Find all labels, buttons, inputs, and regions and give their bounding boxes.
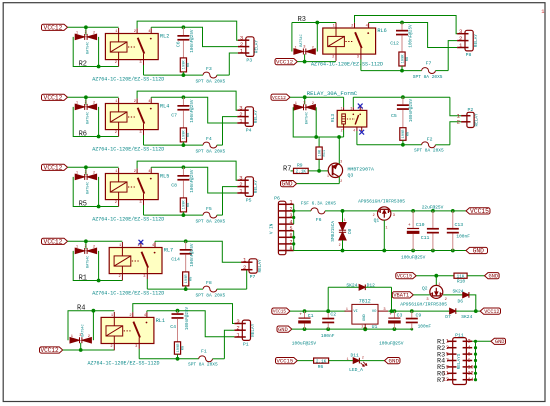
diode value bbox=[87, 182, 91, 194]
svg-text:RL6: RL6 bbox=[377, 28, 386, 34]
svg-text:2: 2 bbox=[88, 335, 90, 339]
svg-text:2: 2 bbox=[339, 243, 341, 247]
relay value AZ764-1C-120E/EZ-SS-112D bbox=[311, 61, 383, 67]
svg-text:C11: C11 bbox=[421, 235, 430, 241]
svg-text:2: 2 bbox=[110, 345, 112, 349]
relay RL4 bbox=[105, 98, 169, 136]
svg-text:+: + bbox=[299, 313, 302, 318]
wire P6 pins 1-4 bbox=[292, 204, 295, 224]
fuse F8 bbox=[147, 270, 246, 299]
wire VCC12 (R3 block) bbox=[297, 54, 336, 63]
svg-text:100nF@25V: 100nF@25V bbox=[190, 29, 195, 53]
svg-text:100nF@25V: 100nF@25V bbox=[409, 98, 414, 122]
svg-text:RL3: RL3 bbox=[330, 114, 336, 123]
svg-text:3: 3 bbox=[135, 345, 137, 349]
svg-text:100nF@25V: 100nF@25V bbox=[190, 169, 195, 193]
net label R7 bbox=[283, 165, 291, 173]
svg-text:F2: F2 bbox=[427, 136, 433, 142]
dual diode (R3 block) bbox=[294, 46, 315, 55]
ground flag GND (power) bbox=[466, 247, 488, 254]
dual diode (R1 block) bbox=[75, 245, 96, 254]
svg-text:2: 2 bbox=[243, 264, 246, 271]
relay value AZ764-1C-120E/EZ-SS-112D bbox=[92, 77, 164, 83]
net label R5 bbox=[79, 200, 87, 208]
svg-text:VCC12: VCC12 bbox=[44, 24, 63, 31]
svg-text:P5: P5 bbox=[246, 197, 252, 203]
svg-text:R9: R9 bbox=[297, 163, 303, 169]
svg-text:AP9561GH/IRFR5305: AP9561GH/IRFR5305 bbox=[400, 302, 447, 308]
relay RL3 bbox=[330, 106, 367, 132]
resistor R9 bbox=[291, 163, 329, 175]
svg-text:P1: P1 bbox=[243, 341, 249, 347]
svg-text:BAT54C: BAT54C bbox=[87, 112, 91, 124]
dual diode (R2 block) bbox=[75, 31, 96, 40]
fuse F5 bbox=[144, 187, 238, 225]
ground flag GND (FormC) bbox=[281, 181, 297, 188]
svg-text:VCC12: VCC12 bbox=[44, 164, 63, 171]
capacitor C14 bbox=[171, 241, 195, 272]
no-connect X bbox=[139, 240, 144, 245]
relay value AZ764-1C-120E/EZ-SS-112D bbox=[92, 291, 164, 297]
svg-text:C6: C6 bbox=[176, 41, 182, 47]
wire VBAT1 to Q2 bbox=[413, 294, 430, 296]
svg-text:7: 7 bbox=[446, 358, 449, 364]
net labels R1-R7 (P11) bbox=[437, 339, 445, 385]
resistor 100R (FormC) bbox=[400, 128, 411, 147]
svg-text:Q2: Q2 bbox=[422, 285, 428, 291]
value 100uF@25V (C1) bbox=[292, 340, 317, 346]
svg-text:P4: P4 bbox=[246, 127, 252, 133]
svg-text:C8: C8 bbox=[171, 183, 177, 189]
svg-text:VCC15: VCC15 bbox=[397, 273, 412, 279]
diode value bbox=[87, 256, 91, 268]
svg-text:MMBT2907A: MMBT2907A bbox=[348, 167, 374, 173]
svg-text:R8: R8 bbox=[187, 63, 191, 67]
value 22uF@25V bbox=[422, 204, 444, 210]
svg-text:2: 2 bbox=[93, 32, 95, 36]
svg-text:SPT 8A 20X5: SPT 8A 20X5 bbox=[196, 218, 226, 224]
capacitor C6 bbox=[176, 27, 196, 58]
svg-text:GND: GND bbox=[495, 339, 505, 345]
svg-text:R7: R7 bbox=[283, 165, 291, 173]
wire coil drive net (FormC) bbox=[293, 107, 343, 139]
svg-text:2: 2 bbox=[361, 326, 363, 330]
resistor 100R bbox=[183, 272, 194, 291]
capacitor C4 bbox=[170, 306, 190, 341]
svg-text:RL2: RL2 bbox=[160, 34, 169, 40]
svg-text:5: 5 bbox=[289, 226, 292, 232]
relay value AZ764-1C-120E/EZ-SS-112D bbox=[92, 147, 164, 153]
resistor R6 2.1K bbox=[314, 358, 329, 370]
svg-text:RL1: RL1 bbox=[156, 318, 165, 324]
svg-text:2: 2 bbox=[332, 56, 334, 60]
svg-text:14: 14 bbox=[468, 377, 474, 383]
svg-text:7812: 7812 bbox=[359, 299, 371, 305]
svg-text:SK24: SK24 bbox=[346, 282, 357, 288]
svg-text:12: 12 bbox=[468, 371, 474, 377]
svg-text:AZ764-1C-120E/EZ-SS-112D: AZ764-1C-120E/EZ-SS-112D bbox=[92, 217, 164, 223]
power flag VCC12 (R1 block) bbox=[42, 238, 68, 245]
diode value bbox=[305, 112, 309, 124]
ground flag GND (P11) bbox=[491, 338, 506, 345]
wire contact to connector pin 3 bbox=[137, 91, 237, 110]
value 100uF@25V (C3) bbox=[379, 340, 404, 346]
svg-text:100R: 100R bbox=[183, 200, 187, 210]
svg-text:100R: 100R bbox=[401, 54, 405, 64]
svg-text:D11: D11 bbox=[351, 352, 360, 358]
svg-text:P7: P7 bbox=[250, 274, 256, 280]
svg-text:BAT54C: BAT54C bbox=[87, 182, 91, 194]
svg-text:VCC12: VCC12 bbox=[272, 95, 286, 101]
svg-text:U1: U1 bbox=[372, 324, 378, 330]
svg-text:1: 1 bbox=[344, 218, 346, 222]
svg-text:C3: C3 bbox=[397, 313, 403, 319]
svg-text:VO: VO bbox=[372, 310, 377, 314]
value 100uF@25V bbox=[401, 254, 426, 260]
svg-text:100uF@25V: 100uF@25V bbox=[379, 340, 404, 346]
capacitor C3 bbox=[388, 311, 402, 329]
svg-text:R8: R8 bbox=[187, 203, 191, 207]
svg-text:BAT54C: BAT54C bbox=[87, 256, 91, 268]
svg-text:8: 8 bbox=[468, 358, 471, 364]
net label R2 bbox=[79, 60, 87, 68]
svg-text:P8: P8 bbox=[466, 52, 472, 58]
fuse F7 bbox=[361, 41, 457, 80]
svg-text:2: 2 bbox=[445, 298, 447, 302]
svg-text:R5: R5 bbox=[79, 200, 87, 208]
svg-text:3: 3 bbox=[85, 101, 87, 105]
svg-text:SMBJ15CA: SMBJ15CA bbox=[331, 221, 336, 242]
capacitor C11 bbox=[421, 211, 439, 251]
svg-text:R1: R1 bbox=[79, 274, 87, 282]
svg-text:100R: 100R bbox=[177, 343, 181, 353]
connector P11 (RELAYS) bbox=[443, 333, 474, 385]
wire P11 even pins to GND bbox=[472, 340, 491, 382]
wire coil pins (FormC) bbox=[343, 97, 345, 137]
svg-text:8: 8 bbox=[289, 246, 292, 252]
svg-text:SPT 8A 20X5: SPT 8A 20X5 bbox=[196, 78, 226, 84]
svg-text:C9: C9 bbox=[416, 313, 422, 319]
svg-text:GND: GND bbox=[473, 248, 485, 255]
power flag VCC12 (reg out) bbox=[480, 308, 500, 315]
svg-text:F6: F6 bbox=[316, 217, 322, 223]
wire VCC12 rail bbox=[68, 25, 119, 34]
wire contact to connector pin 3 bbox=[137, 161, 237, 180]
regulator U1 7812 bbox=[345, 299, 389, 331]
svg-text:F8: F8 bbox=[206, 280, 212, 286]
svg-text:RL4: RL4 bbox=[160, 104, 169, 110]
svg-text:AP9561GH/IRFR5305: AP9561GH/IRFR5305 bbox=[358, 199, 405, 205]
svg-text:4: 4 bbox=[468, 345, 471, 351]
svg-text:2.1K: 2.1K bbox=[296, 170, 307, 175]
svg-text:2: 2 bbox=[373, 214, 375, 218]
svg-text:2: 2 bbox=[340, 179, 342, 183]
power flag VCC12 (R2 block) bbox=[42, 24, 68, 31]
wire contact to connector pin 3 bbox=[137, 21, 238, 40]
svg-text:2: 2 bbox=[115, 201, 117, 205]
svg-text:R8: R8 bbox=[406, 57, 410, 61]
wire net R2 bbox=[73, 37, 118, 69]
diode value bbox=[81, 324, 85, 336]
power flag VCC15 (reg in) bbox=[272, 308, 290, 315]
wire VCC15 to regulator bbox=[290, 309, 346, 313]
svg-text:RELAY: RELAY bbox=[254, 110, 259, 124]
wire P6 pins 5-8 bbox=[292, 231, 295, 251]
svg-text:6: 6 bbox=[289, 233, 292, 239]
svg-text:R6: R6 bbox=[318, 364, 324, 370]
svg-text:P2: P2 bbox=[468, 107, 474, 113]
wire contact to connector pin 3 (R3 block) bbox=[355, 16, 458, 34]
svg-text:Q3: Q3 bbox=[348, 172, 354, 178]
capacitor C8 bbox=[171, 167, 195, 198]
MOSFET Q1 AP9561GH/IRFR5305 bbox=[358, 199, 405, 224]
svg-text:3: 3 bbox=[303, 101, 305, 105]
svg-text:3: 3 bbox=[340, 159, 342, 163]
svg-text:R8: R8 bbox=[181, 346, 185, 350]
svg-text:R8: R8 bbox=[190, 277, 194, 281]
no-connect X (FormC top) bbox=[358, 104, 363, 109]
svg-text:C1: C1 bbox=[308, 313, 314, 319]
svg-text:C10: C10 bbox=[416, 222, 425, 228]
wire VCC12 rail bbox=[68, 239, 123, 248]
svg-text:D7: D7 bbox=[445, 314, 451, 320]
wire VCC15 to R10 bbox=[416, 274, 454, 278]
connector P2 bbox=[457, 107, 480, 128]
svg-text:RELAY: RELAY bbox=[251, 323, 256, 337]
svg-text:RELAY: RELAY bbox=[475, 113, 480, 127]
wire contact to connector pin 3 (R4 block) bbox=[133, 304, 235, 324]
power flag VCC15 (power out) bbox=[466, 208, 490, 215]
svg-text:LED_A: LED_A bbox=[349, 367, 363, 373]
svg-text:2: 2 bbox=[115, 61, 117, 65]
MOSFET Q2 AP9561GH/IRFR5305 bbox=[400, 276, 447, 308]
relay RL2 bbox=[105, 28, 169, 66]
svg-text:100nF: 100nF bbox=[321, 333, 335, 339]
net label R4 bbox=[77, 304, 85, 312]
svg-text:2.1K: 2.1K bbox=[316, 359, 327, 364]
svg-text:R4: R4 bbox=[77, 304, 85, 312]
svg-text:R2: R2 bbox=[79, 60, 87, 68]
ground flag GND (reg) bbox=[277, 326, 292, 333]
svg-text:F7: F7 bbox=[426, 61, 432, 67]
wire contact/cap to connector pin 1 (R3 block) bbox=[369, 21, 458, 48]
diode D7 SK24 bbox=[445, 308, 472, 320]
svg-text:3: 3 bbox=[139, 201, 141, 205]
svg-text:3: 3 bbox=[289, 213, 292, 219]
svg-text:VBAT1: VBAT1 bbox=[393, 293, 409, 299]
capacitor C5 bbox=[391, 97, 414, 128]
ground flag GND (R10) bbox=[485, 273, 500, 280]
net label R1 bbox=[79, 274, 87, 282]
connector P5 bbox=[237, 175, 259, 204]
svg-text:VCC12: VCC12 bbox=[276, 59, 294, 66]
svg-text:GND: GND bbox=[282, 181, 293, 188]
svg-text:2: 2 bbox=[341, 129, 343, 133]
title RELAY_30A_FormC bbox=[307, 90, 358, 97]
svg-text:C5: C5 bbox=[391, 113, 397, 119]
wire VCC12 (FormC) bbox=[290, 95, 344, 104]
wire GND rail (reg) bbox=[292, 327, 413, 331]
svg-text:1: 1 bbox=[541, 9, 544, 15]
relay RL1 bbox=[101, 312, 165, 350]
wire D11 to GND bbox=[359, 360, 384, 362]
svg-text:VCC12: VCC12 bbox=[41, 347, 59, 354]
svg-text:C13: C13 bbox=[455, 222, 464, 228]
wire Q3 emitter bbox=[338, 137, 340, 164]
svg-text:R7: R7 bbox=[437, 377, 445, 385]
svg-text:AZ764-1C-120E/EZ-SS-112D: AZ764-1C-120E/EZ-SS-112D bbox=[311, 61, 383, 67]
svg-text:+: + bbox=[389, 313, 392, 318]
svg-text:GND: GND bbox=[278, 326, 288, 333]
svg-text:100nF@25V: 100nF@25V bbox=[190, 99, 195, 123]
svg-text:GND: GND bbox=[389, 358, 400, 365]
svg-text:1: 1 bbox=[346, 308, 348, 312]
wire VCC12 rail (R4 block) bbox=[63, 343, 115, 352]
svg-text:100R: 100R bbox=[183, 130, 187, 140]
relay RL7 bbox=[109, 242, 173, 280]
svg-text:P6: P6 bbox=[274, 196, 280, 202]
svg-text:SK24: SK24 bbox=[453, 288, 464, 294]
svg-text:VCC15: VCC15 bbox=[277, 357, 294, 364]
svg-text:100R: 100R bbox=[183, 60, 187, 70]
wire net R5 bbox=[73, 177, 118, 209]
fuse F4 bbox=[144, 117, 238, 155]
svg-text:3: 3 bbox=[446, 345, 449, 351]
svg-text:3: 3 bbox=[85, 171, 87, 175]
svg-text:BAT54C: BAT54C bbox=[81, 324, 85, 336]
svg-text:100R: 100R bbox=[402, 129, 406, 139]
svg-text:22uF@25V: 22uF@25V bbox=[422, 204, 444, 210]
svg-text:2: 2 bbox=[312, 102, 314, 106]
ground flag GND (LED) bbox=[385, 358, 401, 365]
power flag VBAT1 bbox=[392, 292, 413, 299]
svg-text:RELAYS: RELAYS bbox=[457, 353, 462, 369]
wire contact to cap / connector pin 1 (FormC) bbox=[353, 95, 461, 115]
svg-text:RELAY: RELAY bbox=[254, 180, 259, 194]
svg-text:6: 6 bbox=[468, 352, 471, 358]
capacitor C2 bbox=[321, 311, 336, 339]
diode value bbox=[87, 42, 91, 54]
svg-text:2: 2 bbox=[289, 206, 292, 212]
svg-text:3: 3 bbox=[139, 131, 141, 135]
svg-text:C7: C7 bbox=[171, 113, 177, 119]
svg-text:C2: C2 bbox=[330, 311, 336, 317]
capacitor C13 bbox=[447, 211, 470, 251]
relay RL5 bbox=[105, 168, 169, 206]
svg-text:SPT 8A 20X5: SPT 8A 20X5 bbox=[196, 148, 226, 154]
capacitor C10 bbox=[407, 211, 425, 251]
svg-text:3: 3 bbox=[85, 245, 87, 249]
svg-text:GND: GND bbox=[489, 274, 499, 280]
net label R3 bbox=[298, 16, 306, 24]
svg-text:1: 1 bbox=[327, 174, 329, 178]
svg-text:3: 3 bbox=[426, 298, 428, 302]
svg-text:1: 1 bbox=[289, 200, 292, 206]
svg-text:VCC15: VCC15 bbox=[273, 310, 287, 315]
svg-text:R11: R11 bbox=[323, 149, 327, 156]
svg-text:VCC12: VCC12 bbox=[44, 94, 63, 101]
wire contact to cap and connector bbox=[151, 95, 237, 123]
svg-text:2: 2 bbox=[134, 30, 136, 34]
svg-text:R8: R8 bbox=[187, 133, 191, 137]
svg-text:C4: C4 bbox=[170, 324, 176, 330]
svg-text:3: 3 bbox=[393, 214, 395, 218]
resistor R11 bbox=[316, 137, 327, 173]
power flag VCC15 (battery charge) bbox=[396, 273, 416, 280]
wire contact to cap and connector bbox=[151, 25, 238, 46]
wire VCC12 rail bbox=[68, 95, 119, 104]
svg-text:R6: R6 bbox=[79, 130, 87, 138]
capacitor C7 bbox=[171, 97, 195, 128]
svg-text:GND: GND bbox=[363, 313, 367, 321]
svg-text:4: 4 bbox=[353, 129, 355, 133]
svg-text:AZ764-1C-120E/EZ-SS-112D: AZ764-1C-120E/EZ-SS-112D bbox=[92, 77, 164, 83]
no-connect X (FormC bottom) bbox=[359, 130, 364, 135]
sheet number 1 bbox=[541, 9, 544, 15]
connector P6 (V IN) bbox=[270, 196, 294, 255]
dual diode (R6 block) bbox=[75, 101, 96, 110]
resistor R10 11K bbox=[454, 273, 485, 284]
LED D11 bbox=[347, 352, 368, 373]
svg-text:1: 1 bbox=[341, 107, 343, 111]
wire R6 to D11 bbox=[329, 360, 354, 362]
svg-text:F5: F5 bbox=[206, 206, 212, 212]
power flag VCC12 (R3 block) bbox=[275, 59, 297, 66]
svg-text:2: 2 bbox=[93, 246, 95, 250]
connector P8 bbox=[457, 28, 479, 58]
svg-text:3: 3 bbox=[383, 308, 385, 312]
resistor 100R bbox=[180, 128, 191, 147]
svg-text:7: 7 bbox=[289, 239, 292, 245]
connector P4 bbox=[237, 105, 259, 134]
diode value bbox=[300, 34, 304, 46]
svg-text:9: 9 bbox=[446, 364, 449, 370]
svg-text:3: 3 bbox=[85, 31, 87, 35]
wire contact to cap and connector bbox=[151, 165, 237, 193]
capacitor C1 bbox=[298, 311, 313, 329]
svg-text:1: 1 bbox=[347, 357, 349, 361]
svg-text:VI: VI bbox=[353, 310, 358, 314]
resistor 100R (R3 block) bbox=[399, 52, 410, 73]
svg-text:C14: C14 bbox=[171, 257, 180, 263]
wire GND rail (power) bbox=[294, 249, 466, 253]
connector P3 bbox=[238, 35, 260, 64]
resistor 100R bbox=[180, 58, 191, 77]
svg-text:2: 2 bbox=[93, 102, 95, 106]
svg-text:BAT54C: BAT54C bbox=[87, 42, 91, 54]
svg-text:C12: C12 bbox=[390, 41, 399, 47]
svg-text:RELAY: RELAY bbox=[255, 40, 260, 54]
svg-text:100nF: 100nF bbox=[456, 234, 470, 240]
connector P1 bbox=[234, 318, 256, 348]
svg-text:Q1: Q1 bbox=[374, 218, 380, 224]
fuse F6 bbox=[294, 201, 378, 223]
capacitor C9 bbox=[406, 311, 432, 330]
wire regulator output bbox=[388, 309, 480, 313]
svg-text:AZ764-1C-120E/EZ-SS-112D: AZ764-1C-120E/EZ-SS-112D bbox=[92, 291, 164, 297]
wire VCC12 rail bbox=[68, 165, 119, 174]
svg-text:SPT 8A 20X5: SPT 8A 20X5 bbox=[413, 74, 443, 80]
svg-text:3: 3 bbox=[357, 56, 359, 60]
svg-text:2: 2 bbox=[115, 131, 117, 135]
svg-text:100nF@25V: 100nF@25V bbox=[409, 24, 414, 48]
svg-text:1: 1 bbox=[446, 339, 449, 345]
relay value AZ764-1C-120E/EZ-SS-112D bbox=[88, 361, 160, 367]
svg-text:BAT54C: BAT54C bbox=[300, 34, 304, 46]
svg-text:2: 2 bbox=[468, 339, 471, 345]
power flag VCC12 (R6 block) bbox=[42, 94, 68, 101]
TVS diode D8 SMBJ15CA bbox=[331, 211, 353, 251]
